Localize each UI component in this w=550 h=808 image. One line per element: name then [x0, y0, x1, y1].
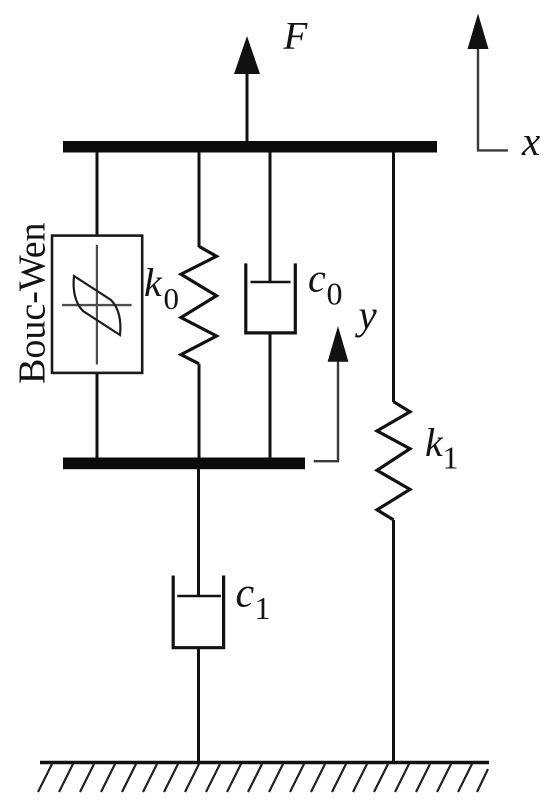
svg-text:F: F — [283, 15, 309, 58]
svg-text:1: 1 — [443, 440, 459, 476]
svg-text:c: c — [236, 571, 255, 617]
svg-text:0: 0 — [327, 276, 343, 312]
svg-text:k: k — [144, 260, 163, 305]
svg-text:1: 1 — [255, 590, 271, 626]
svg-text:x: x — [521, 118, 540, 164]
svg-text:c: c — [308, 256, 326, 301]
svg-text:k: k — [425, 420, 444, 465]
svg-text:Bouc-Wen: Bouc-Wen — [12, 222, 54, 384]
svg-text:y: y — [355, 292, 378, 338]
svg-text:0: 0 — [164, 281, 180, 316]
